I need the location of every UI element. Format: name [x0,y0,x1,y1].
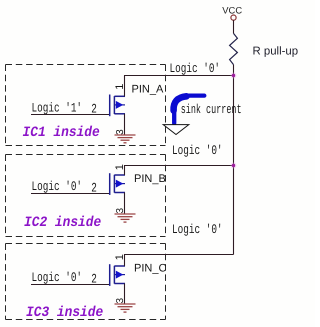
wire Q3 drain to PIN_C [124,255,126,267]
wire Q1 source down [124,114,126,135]
svg-text:PIN_B: PIN_B [134,173,166,185]
ground (IC2) [115,214,136,222]
transistor Q1 (open-drain NMOS, PIN_A) [110,95,125,117]
svg-text:IC1 inside: IC1 inside [23,125,100,141]
wire Q1 drain to PIN_A [124,76,126,97]
wire gate IC3 [31,284,110,286]
svg-text:2: 2 [91,102,97,117]
svg-text:2: 2 [91,180,97,195]
wire bus vertical (resistor to PIN_C row) [233,65,235,255]
svg-text:PIN_A: PIN_A [132,84,164,96]
Q1 bulk arrow [116,101,124,109]
wire PIN_C horizontal [124,254,234,256]
svg-text:Logic '0': Logic '0' [32,179,83,194]
svg-text:2: 2 [91,271,97,286]
IC3 dashed box [6,244,166,320]
transistor Q3 (open-drain NMOS, PIN_C) [110,264,125,286]
svg-text:sink current: sink current [181,102,242,117]
VCC open circle terminal [231,15,236,20]
wire gate IC1 [31,114,110,116]
svg-text:PIN_C: PIN_C [134,263,166,275]
svg-text:Logic '0': Logic '0' [32,270,83,285]
junction node A [231,73,237,79]
sink current annotation arrow (blue) [174,96,205,124]
svg-text:R pull-up: R pull-up [253,45,299,57]
svg-text:IC2 inside: IC2 inside [24,215,101,231]
IC1 dashed box [6,65,166,146]
svg-text:Logic '0': Logic '0' [172,143,223,158]
wire VCC to resistor [233,20,235,33]
svg-text:Logic '1': Logic '1' [32,100,83,115]
ground (IC1) [115,135,136,143]
wire gate IC2 [31,193,110,195]
svg-text:VCC: VCC [222,4,242,15]
wire PIN_B horizontal [124,165,234,167]
svg-text:IC3 inside: IC3 inside [26,305,103,321]
junction node B [231,163,237,169]
resistor R pull-up zigzag [230,33,238,64]
svg-text:3: 3 [115,208,126,214]
svg-text:Logic '0': Logic '0' [170,61,221,76]
wire Q2 drain to PIN_B [124,166,126,176]
wire PIN_A horizontal [124,75,234,77]
sink current open arrowhead [163,125,189,135]
IC2 dashed box [6,155,166,237]
wire Q2 source down [124,193,126,215]
svg-text:3: 3 [115,129,126,135]
ground (IC3) [115,304,136,312]
svg-text:3: 3 [115,298,126,304]
Q2 bulk arrow [116,180,124,188]
Q3 bulk arrow [116,271,124,279]
transistor Q2 (open-drain NMOS, PIN_B) [110,173,125,195]
wire Q3 source down [124,284,126,305]
svg-text:Logic '0': Logic '0' [172,222,223,237]
